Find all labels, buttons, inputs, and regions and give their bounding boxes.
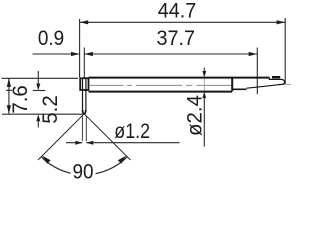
svg-text:0.9: 0.9 [38, 27, 64, 50]
svg-text:ø2.4: ø2.4 [183, 95, 206, 136]
svg-text:44.7: 44.7 [158, 0, 197, 23]
svg-text:ø1.2: ø1.2 [114, 120, 150, 144]
svg-text:7.6: 7.6 [8, 85, 31, 113]
svg-text:90: 90 [72, 161, 93, 183]
svg-text:5.2: 5.2 [38, 95, 61, 123]
svg-text:37.7: 37.7 [157, 26, 196, 50]
